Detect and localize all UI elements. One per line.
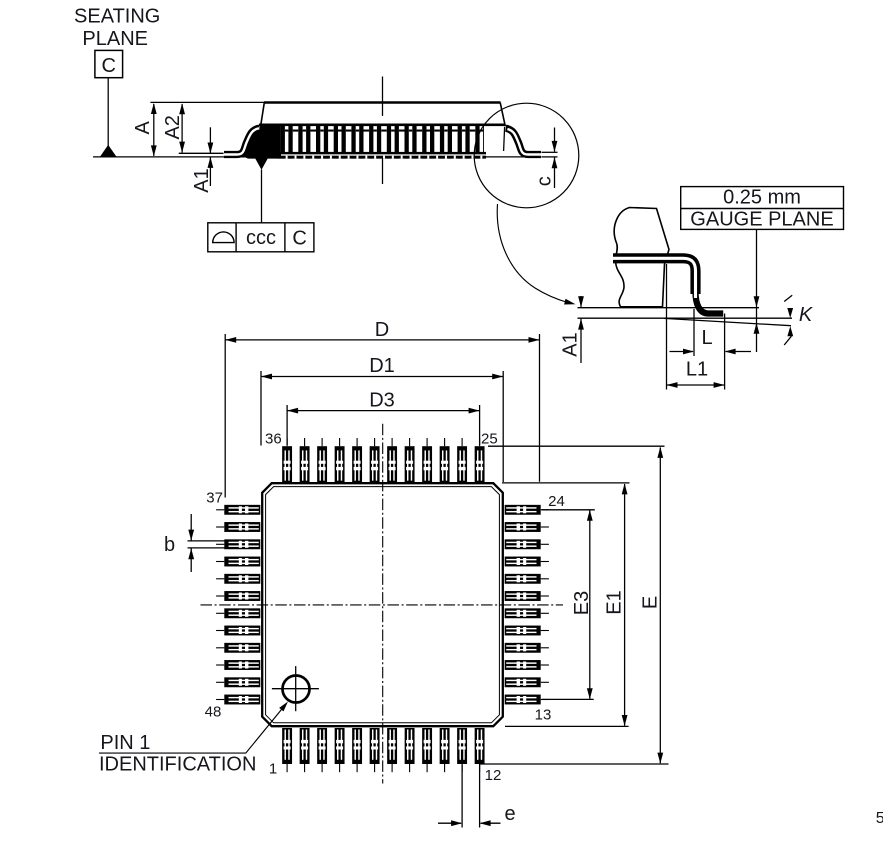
svg-text:A1: A1 xyxy=(191,168,213,192)
datum box C xyxy=(95,50,123,77)
svg-text:L: L xyxy=(701,327,712,349)
svg-text:e: e xyxy=(504,803,515,825)
svg-text:25: 25 xyxy=(481,431,498,448)
leader from datum box to seating plane xyxy=(107,78,109,146)
svg-text:D3: D3 xyxy=(369,389,395,411)
dimension A1 xyxy=(209,127,211,153)
dimension A1 (detail) xyxy=(580,296,582,307)
extension line package top xyxy=(150,101,266,103)
right pin column (pins 24..13) xyxy=(505,505,549,515)
svg-text:D1: D1 xyxy=(369,355,395,377)
leader to pin1 circle xyxy=(99,704,286,753)
lead in gauge detail xyxy=(613,258,696,294)
svg-text:PIN 1: PIN 1 xyxy=(100,732,150,754)
dimension A2 xyxy=(181,104,183,153)
bottom pin row (pins 1..12) xyxy=(282,728,292,772)
package body outline inner xyxy=(266,487,500,723)
lead comb rail xyxy=(259,124,506,127)
dimension D3 xyxy=(287,410,480,412)
dimension b xyxy=(188,540,225,542)
svg-text:C: C xyxy=(101,55,115,77)
dimension E1 xyxy=(624,484,626,726)
center line side view xyxy=(382,77,384,116)
feature control frame ccc xyxy=(208,223,314,252)
svg-text:0.25 mm: 0.25 mm xyxy=(723,187,801,209)
curved arrow from detail circle to gauge detail xyxy=(497,204,568,303)
gauge plane label box xyxy=(681,187,844,230)
center line vertical xyxy=(382,424,384,784)
svg-text:ccc: ccc xyxy=(246,227,276,249)
left pin column (pins 37..48) xyxy=(216,505,260,515)
package body outline outer xyxy=(262,483,503,726)
dimension E xyxy=(659,448,661,764)
dimension D xyxy=(225,339,539,341)
svg-text:A2: A2 xyxy=(162,115,184,139)
left lead (side view) xyxy=(224,128,259,154)
svg-text:K: K xyxy=(799,304,814,326)
svg-text:GAUGE PLANE: GAUGE PLANE xyxy=(690,208,833,230)
svg-text:C: C xyxy=(292,228,306,250)
lead comb bars, crossbars and feet xyxy=(281,126,285,159)
svg-text:12: 12 xyxy=(485,767,502,784)
gauge plane line xyxy=(578,307,760,309)
detail circle xyxy=(474,103,579,208)
extension line package bottom (standoff) xyxy=(179,152,224,154)
dimension A xyxy=(153,104,155,156)
svg-text:D: D xyxy=(375,319,389,341)
package body side view xyxy=(264,101,501,104)
svg-text:1: 1 xyxy=(269,760,277,777)
svg-text:E3: E3 xyxy=(571,591,593,615)
svg-text:b: b xyxy=(164,534,175,556)
center line horizontal xyxy=(201,604,564,606)
svg-text:E1: E1 xyxy=(604,590,626,614)
dimension c xyxy=(554,128,556,152)
profile symbol xyxy=(213,232,234,243)
svg-text:IDENTIFICATION: IDENTIFICATION xyxy=(99,754,256,776)
dimension e xyxy=(461,765,463,828)
svg-text:PLANE: PLANE xyxy=(82,28,148,50)
dimension K xyxy=(784,295,792,301)
svg-text:E: E xyxy=(640,596,662,609)
svg-text:A1: A1 xyxy=(560,332,582,356)
datum triangle on seating plane xyxy=(100,145,116,157)
svg-text:37: 37 xyxy=(206,490,223,507)
extension lines L/L1 xyxy=(666,264,668,390)
svg-text:A: A xyxy=(132,120,154,134)
K tilted line xyxy=(664,318,791,325)
svg-text:13: 13 xyxy=(535,707,552,724)
svg-text:36: 36 xyxy=(265,431,282,448)
svg-text:L1: L1 xyxy=(686,358,708,380)
datum target triangle under body edge xyxy=(255,157,269,170)
lead tip thickness lines (c) xyxy=(542,151,558,153)
dimension E3 xyxy=(589,510,591,698)
body fragment xyxy=(614,208,669,307)
gauge plane leader with arrows xyxy=(756,229,758,352)
seating plane line xyxy=(93,156,541,158)
svg-text:48: 48 xyxy=(205,704,222,721)
svg-text:c: c xyxy=(533,176,555,186)
svg-text:24: 24 xyxy=(548,493,565,510)
dimension L xyxy=(670,351,694,353)
right lead (side view) xyxy=(506,128,541,154)
pin 1 identification circle xyxy=(283,676,310,703)
dimension D1 xyxy=(261,376,503,378)
dimension L1 xyxy=(667,384,725,386)
svg-text:SEATING: SEATING xyxy=(74,5,160,27)
svg-text:5: 5 xyxy=(876,810,883,827)
seating plane line (detail) xyxy=(578,317,793,319)
top pin row (pins 36..25) xyxy=(282,438,292,482)
